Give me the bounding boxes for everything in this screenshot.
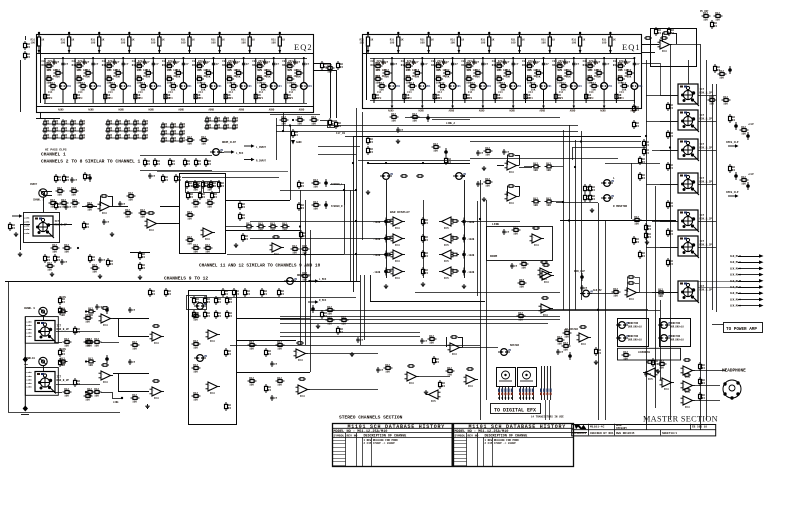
svg-text:AGND: AGND xyxy=(449,110,455,113)
EQ2 top resistor pair 4 xyxy=(121,32,135,54)
EQ1 filter stage 8 xyxy=(583,57,613,103)
master pot block 3 xyxy=(678,139,712,161)
svg-text:CHANNELS 2 TO 8 SIMILAR TO CHA: CHANNELS 2 TO 8 SIMILAR TO CHANNEL 1 xyxy=(41,159,140,165)
EQ1 top resistor pair 6 xyxy=(511,32,525,54)
ch9 pad block xyxy=(35,321,69,343)
svg-text:L: L xyxy=(613,177,615,180)
channel 1 pad block xyxy=(33,216,67,238)
svg-text:1K: 1K xyxy=(162,39,166,42)
ch9 mid junction dots xyxy=(85,310,87,312)
wires right of EQ1 top xyxy=(641,44,659,46)
svg-text:473: 473 xyxy=(138,97,143,100)
svg-text:R_MIX: R_MIX xyxy=(319,299,327,302)
EQ1 top resistor pair 4 xyxy=(450,32,464,54)
EQ1 filter stage 9 xyxy=(613,57,643,103)
output arrow 8 xyxy=(738,298,759,300)
svg-text:C14: C14 xyxy=(589,91,594,94)
EQ2 top bus xyxy=(40,44,42,103)
resistor R202 xyxy=(660,37,668,40)
wire from EQ1 right to blocks xyxy=(641,63,660,65)
bar LED left 3 xyxy=(384,251,388,259)
svg-text:L0dB: L0dB xyxy=(26,386,32,389)
headphone jack pot xyxy=(723,380,741,400)
EQ1 top resistor pair 7 xyxy=(541,32,555,54)
efx left op-amp xyxy=(426,390,441,403)
svg-text:C12 R18: C12 R18 xyxy=(47,62,58,65)
svg-text:223 10K: 223 10K xyxy=(558,69,569,72)
resistor grid A (channel input pads) xyxy=(42,119,86,139)
aux L sum op-amp xyxy=(540,271,555,284)
aux out op-amp xyxy=(625,288,640,301)
svg-text:C14: C14 xyxy=(559,91,564,94)
ch9 second row xyxy=(63,338,72,348)
svg-text:MASTER SECTION: MASTER SECTION xyxy=(643,414,718,423)
svg-text:AGND: AGND xyxy=(570,110,576,113)
loudness box xyxy=(618,348,681,360)
bar comparator right 3 xyxy=(439,250,454,263)
output arrow 7 xyxy=(738,293,759,295)
svg-text:C14: C14 xyxy=(78,91,83,94)
LINE ROOM sub box xyxy=(487,227,553,261)
pot block 7 input wire xyxy=(660,292,678,294)
master bus horizontal xyxy=(560,220,676,222)
svg-text:223 10K: 223 10K xyxy=(437,69,448,72)
svg-text:R21 4K7: R21 4K7 xyxy=(107,75,118,78)
pot block 5 input wire xyxy=(660,221,678,223)
aux input resistors xyxy=(518,279,527,289)
svg-text:473: 473 xyxy=(108,97,113,100)
svg-text:VR1: VR1 xyxy=(517,85,522,88)
EQ2 filter stage 1 xyxy=(42,57,72,103)
svg-text:AGND: AGND xyxy=(148,109,154,112)
arrows to mix bus xyxy=(308,279,319,282)
svg-text:100: 100 xyxy=(602,42,607,45)
EQ1 top resistor pair 3 xyxy=(420,32,434,54)
svg-text:R21 4K7: R21 4K7 xyxy=(528,75,539,78)
EQ2 top resistor pair 2 xyxy=(61,32,75,54)
svg-text:C12 R18: C12 R18 xyxy=(497,62,508,65)
master pot block 6 xyxy=(678,236,712,258)
master pot block 1 xyxy=(678,84,712,106)
svg-text:1K: 1K xyxy=(431,39,435,42)
svg-text:LOUDNESS: LOUDNESS xyxy=(638,351,651,354)
svg-text:223 10K: 223 10K xyxy=(288,69,299,72)
svg-text:1EK_M1: 1EK_M1 xyxy=(730,267,739,270)
bar divider resistor 2 xyxy=(422,234,429,243)
svg-text:1MFG_CLP: 1MFG_CLP xyxy=(726,141,739,144)
svg-text:223 10K: 223 10K xyxy=(497,69,508,72)
svg-text:1K: 1K xyxy=(252,39,256,42)
EFX block 2 pins xyxy=(520,386,522,400)
svg-text:REV NO: REV NO xyxy=(347,435,358,438)
svg-text:473: 473 xyxy=(529,97,534,100)
channel1 left phantom cluster xyxy=(12,214,23,217)
svg-text:R21 4K7: R21 4K7 xyxy=(167,75,178,78)
svg-text:473: 473 xyxy=(259,97,264,100)
svg-text:473: 473 xyxy=(438,97,443,100)
svg-text:CHNNL 9: CHNNL 9 xyxy=(24,307,35,310)
pan law resistor box xyxy=(187,296,207,310)
svg-text:100: 100 xyxy=(271,42,276,45)
svg-text:APPROVALS: APPROVALS xyxy=(573,432,587,435)
left channel cluster op-amps xyxy=(294,349,309,362)
EQ1 top resistor pair 5 xyxy=(481,32,495,54)
svg-text:MODEL NO : M51-12-25A/M10: MODEL NO : M51-12-25A/M10 xyxy=(334,429,388,434)
svg-text:C14: C14 xyxy=(48,91,53,94)
ground under jack xyxy=(18,252,22,257)
pan pots in fader block xyxy=(194,303,208,310)
channel1 post op-amp xyxy=(270,243,285,256)
fader block sub boxes xyxy=(186,182,202,193)
svg-text:VR1: VR1 xyxy=(426,85,431,88)
XLR pin leads xyxy=(43,191,52,193)
EQ2 block outline xyxy=(37,35,314,113)
wires blocks to trunk xyxy=(646,95,678,97)
svg-text:AGND: AGND xyxy=(630,110,636,113)
ch9 pad outer box xyxy=(25,317,58,344)
exit diamond bottom xyxy=(23,406,28,412)
bus verticals at left xyxy=(283,112,285,131)
svg-text:VR1: VR1 xyxy=(67,85,72,88)
svg-text:R21 4K7: R21 4K7 xyxy=(288,75,299,78)
svg-text:2 C45 4700P -> 3300P: 2 C45 4700P -> 3300P xyxy=(485,441,517,445)
svg-text:AGND: AGND xyxy=(299,109,305,112)
svg-text:1K: 1K xyxy=(71,39,75,42)
resistor R201 xyxy=(644,37,652,40)
bar LED right 1 xyxy=(462,218,466,226)
svg-text:473: 473 xyxy=(229,97,234,100)
svg-text:1K: 1K xyxy=(582,39,586,42)
svg-text:14 TRANSISTORS IN USE: 14 TRANSISTORS IN USE xyxy=(531,416,564,419)
svg-text:AGND: AGND xyxy=(178,109,184,112)
post fader op-amp xyxy=(405,372,420,385)
bar comparator left 4 xyxy=(391,267,406,280)
channel 1 pad outer box xyxy=(24,213,60,243)
bar divider resistor 4 xyxy=(422,267,429,276)
svg-text:+CLP: +CLP xyxy=(748,123,754,126)
svg-text:C14: C14 xyxy=(289,91,294,94)
svg-text:VR1: VR1 xyxy=(578,85,583,88)
svg-text:TO DIGITAL EFX: TO DIGITAL EFX xyxy=(494,407,536,413)
channel1 right column resistors xyxy=(298,180,305,189)
svg-text:ROD_CLP: ROD_CLP xyxy=(574,270,585,273)
svg-text:VR1: VR1 xyxy=(547,85,552,88)
right of EQ2 cluster xyxy=(321,61,328,70)
wire EQ2 bottom left down xyxy=(40,112,42,118)
svg-text:R21 4K7: R21 4K7 xyxy=(137,75,148,78)
TO POWER AMP box xyxy=(724,323,763,333)
monitor select transistors xyxy=(601,180,615,187)
bar display rails xyxy=(386,180,388,278)
wires channel1 to bus xyxy=(176,223,179,225)
EQ2 top resistor pair 5 xyxy=(151,32,165,54)
channel 1 op-amp IC2 xyxy=(145,219,160,232)
svg-text:100: 100 xyxy=(61,42,66,45)
bar display box top xyxy=(358,160,470,162)
svg-text:C14: C14 xyxy=(529,91,534,94)
svg-text:C12 R18: C12 R18 xyxy=(618,62,629,65)
channel1 mid resistor cluster xyxy=(55,174,62,183)
monitor op-amp IC32 xyxy=(505,192,520,205)
ch10 resistors row xyxy=(59,358,68,368)
svg-text:473: 473 xyxy=(407,97,412,100)
svg-text:100: 100 xyxy=(360,42,365,45)
bar comparator right 1 xyxy=(439,217,454,230)
svg-text:1K: 1K xyxy=(282,39,286,42)
master pot block 4 xyxy=(678,173,712,195)
svg-text:SYMBOL: SYMBOL xyxy=(334,435,345,438)
svg-text:AGND: AGND xyxy=(296,141,302,144)
monitor box left edge xyxy=(477,201,479,296)
svg-text:473: 473 xyxy=(48,97,53,100)
cluster C phantom supply xyxy=(139,251,146,260)
svg-text:C14: C14 xyxy=(619,91,624,94)
ch10 second row xyxy=(63,388,72,398)
below drum cluster xyxy=(311,305,315,313)
svg-text:AGND: AGND xyxy=(209,109,215,112)
svg-text:R21 4K7: R21 4K7 xyxy=(437,75,448,78)
resistor grid D xyxy=(204,116,239,129)
svg-text:GAIN: GAIN xyxy=(60,348,66,351)
svg-text:VR1: VR1 xyxy=(247,85,252,88)
svg-text:EB 588 10: EB 588 10 xyxy=(692,426,707,429)
svg-text:R21 4K7: R21 4K7 xyxy=(47,75,58,78)
EQ1 filter stage 1 xyxy=(371,57,401,103)
svg-text:R21 4K7: R21 4K7 xyxy=(497,75,508,78)
EQ2 filter stage 7 xyxy=(222,57,252,103)
svg-text:DDR_DK9+10: DDR_DK9+10 xyxy=(670,339,684,342)
svg-text:223 10K: 223 10K xyxy=(588,69,599,72)
svg-text:GND: GND xyxy=(24,363,29,366)
svg-text:1EK_M1: 1EK_M1 xyxy=(730,261,739,264)
series resistor xyxy=(86,202,95,212)
bar comparator right 4 xyxy=(439,267,454,280)
EQ1 top resistor pair 1 xyxy=(360,32,374,54)
pot block 2 input wire xyxy=(660,121,678,123)
svg-text:100: 100 xyxy=(481,42,486,45)
svg-text:INPUT: INPUT xyxy=(30,183,38,186)
svg-text:-10dB: -10dB xyxy=(467,254,475,257)
svg-text:100: 100 xyxy=(151,42,156,45)
aux horizontal bus xyxy=(540,309,648,311)
EQ1 top bus xyxy=(366,44,368,100)
svg-text:-10dB: -10dB xyxy=(467,238,475,241)
svg-text:VR1: VR1 xyxy=(217,85,222,88)
svg-text:VR1: VR1 xyxy=(187,85,192,88)
level resistors right xyxy=(643,139,650,148)
table divider bold xyxy=(451,424,453,467)
svg-text:C12 R18: C12 R18 xyxy=(558,62,569,65)
monitor box bottom xyxy=(415,292,560,294)
svg-text:473: 473 xyxy=(168,97,173,100)
EQ1 top resistor pair 9 xyxy=(602,32,616,54)
EQ2 filter stage 5 xyxy=(162,57,192,103)
svg-text:473: 473 xyxy=(619,97,624,100)
ch1 jack wire xyxy=(43,197,45,213)
ch10 input jack xyxy=(39,357,47,365)
resistor xyxy=(335,120,342,129)
IC32 output resistors xyxy=(532,198,541,208)
svg-text:C14: C14 xyxy=(199,91,204,94)
title block xyxy=(572,425,716,436)
pot block 3 input wire xyxy=(660,150,678,152)
EQ1 block outline xyxy=(363,35,642,109)
inter-block resistors xyxy=(667,102,674,111)
svg-text:C12 R18: C12 R18 xyxy=(228,62,239,65)
horizontal to power amp xyxy=(712,324,723,326)
channel1 long wires xyxy=(157,171,288,173)
channels 9-12 fader block xyxy=(189,291,237,425)
svg-text:R21 4K7: R21 4K7 xyxy=(618,75,629,78)
svg-text:223 10K: 223 10K xyxy=(107,69,118,72)
efx driver op-amp xyxy=(464,375,479,388)
right side cluster 1MFG_CLP lower xyxy=(729,164,736,173)
svg-text:223 10K: 223 10K xyxy=(376,69,387,72)
fader block op-amps xyxy=(206,330,221,343)
ch9 input jack xyxy=(39,307,47,315)
output arrow 1 xyxy=(738,256,759,258)
svg-text:223 10K: 223 10K xyxy=(467,69,478,72)
ch9 second op-amp IC12 xyxy=(150,332,165,345)
svg-text:1R_MASTER: 1R_MASTER xyxy=(565,328,578,331)
aux master pot xyxy=(580,290,594,297)
resistor rows mid xyxy=(131,341,140,351)
svg-text:C12 R18: C12 R18 xyxy=(288,62,299,65)
line feed resistors mid xyxy=(390,113,399,123)
svg-text:1EK_M1: 1EK_M1 xyxy=(730,298,739,301)
junction dots on buses xyxy=(299,225,301,227)
EQ1 filter stage 2 xyxy=(401,57,431,103)
EQ2 top resistor pair 9 xyxy=(271,32,285,54)
svg-text:C12 R18: C12 R18 xyxy=(588,62,599,65)
svg-text:VR1: VR1 xyxy=(127,85,132,88)
svg-text:SYMBOL: SYMBOL xyxy=(455,435,466,438)
svg-text:100: 100 xyxy=(541,42,546,45)
channel 1 input resistors xyxy=(56,187,65,197)
channel 1 XLR input jack xyxy=(39,189,47,197)
svg-text:AGND: AGND xyxy=(509,110,515,113)
svg-text:1K: 1K xyxy=(132,39,136,42)
bar comparator left 1 xyxy=(391,217,406,230)
svg-text:473: 473 xyxy=(289,97,294,100)
svg-text:L0dB: L0dB xyxy=(26,331,32,334)
svg-text:1K: 1K xyxy=(613,39,617,42)
pot block 4 input wire xyxy=(660,184,678,186)
svg-text:C12 R18: C12 R18 xyxy=(137,62,148,65)
small cluster mid xyxy=(326,316,335,326)
svg-text:1K: 1K xyxy=(222,39,226,42)
svg-text:L0dB: L0dB xyxy=(26,371,32,374)
svg-text:100: 100 xyxy=(91,42,96,45)
svg-text:EQ2: EQ2 xyxy=(294,42,313,52)
master left op-amps xyxy=(643,368,658,381)
svg-text:R21 4K7: R21 4K7 xyxy=(406,75,417,78)
resistor grid B xyxy=(105,119,149,139)
master section big box top xyxy=(353,136,641,138)
svg-text:MODEL NO : M51-12-25A/M10: MODEL NO : M51-12-25A/M10 xyxy=(455,429,509,434)
EQ2 top resistor pair 3 xyxy=(91,32,105,54)
svg-text:LINE: LINE xyxy=(492,223,499,226)
svg-text:M1101 SCH DATABASE HISTORY: M1101 SCH DATABASE HISTORY xyxy=(469,424,567,430)
left input arrows xyxy=(244,144,255,147)
svg-text:L0dB: L0dB xyxy=(26,324,32,327)
EQ2 filter stage 6 xyxy=(192,57,222,103)
svg-text:C14: C14 xyxy=(438,91,443,94)
svg-text:473: 473 xyxy=(498,97,503,100)
cluster caps/resistors A xyxy=(44,254,51,263)
svg-text:L0dB: L0dB xyxy=(24,232,30,235)
svg-text:C12 R18: C12 R18 xyxy=(437,62,448,65)
svg-text:L_MIX: L_MIX xyxy=(236,152,244,155)
left rail channels 9-12 xyxy=(24,317,26,409)
svg-text:1K: 1K xyxy=(192,39,196,42)
op-amp IC21 right of EQ1 xyxy=(658,40,673,53)
svg-text:EQ1: EQ1 xyxy=(622,42,641,52)
headphone amps xyxy=(681,366,696,379)
svg-text:VR1: VR1 xyxy=(487,85,492,88)
svg-text:1MFGARY: 1MFGARY xyxy=(616,427,627,430)
cluster B xyxy=(89,254,96,263)
svg-text:100: 100 xyxy=(211,42,216,45)
wire bottom bus xyxy=(236,318,310,320)
svg-text:223 10K: 223 10K xyxy=(137,69,148,72)
svg-text:MASTER: MASTER xyxy=(510,344,520,347)
svg-text:STEREO_R: STEREO_R xyxy=(331,205,343,208)
svg-text:223 10K: 223 10K xyxy=(528,69,539,72)
room op-amp IC34 xyxy=(538,268,553,281)
ch10 pad block xyxy=(35,372,69,394)
ch10 pad outer box xyxy=(25,368,58,396)
aux R sum op-amp xyxy=(539,304,554,317)
EFX connector block 1 xyxy=(497,368,516,387)
svg-text:HEADPHONE: HEADPHONE xyxy=(722,369,746,374)
EQ1 bottom pin arrows xyxy=(388,103,394,113)
EQ2 filter stage 4 xyxy=(132,57,162,103)
svg-text:DDR_DK9+10: DDR_DK9+10 xyxy=(628,339,642,342)
svg-text:1EK_M1: 1EK_M1 xyxy=(730,292,739,295)
svg-text:100: 100 xyxy=(511,42,516,45)
EQ1 top resistor pair 2 xyxy=(390,32,404,54)
EQ1 filter stage 4 xyxy=(461,57,491,103)
input resistors IC31 xyxy=(484,147,493,157)
efx pins to table wires xyxy=(545,400,547,420)
svg-text:223 10K: 223 10K xyxy=(618,69,629,72)
channel1 vertical resistor row upper xyxy=(144,158,151,167)
svg-text:CHANNEL 11 AND 12 SIMILAR TO C: CHANNEL 11 AND 12 SIMILAR TO CHANNELS 9 … xyxy=(199,264,321,269)
ch10 op-amp gnd xyxy=(145,404,149,409)
svg-text:VR1: VR1 xyxy=(638,85,643,88)
svg-text:100: 100 xyxy=(31,42,36,45)
mid trunk triple xyxy=(360,275,362,345)
channel1 series resistor row xyxy=(245,223,254,233)
svg-text:VR1: VR1 xyxy=(396,85,401,88)
bar display top rail xyxy=(368,163,470,165)
bar comparator left 3 xyxy=(391,250,406,263)
bar display input lines xyxy=(250,221,393,223)
EFX connector block 2 xyxy=(518,368,537,387)
bar comparator left 2 xyxy=(391,234,406,247)
EQ2 filter stage 2 xyxy=(72,57,102,103)
channel 1 gain pot wires xyxy=(50,224,72,226)
svg-text:C12 R18: C12 R18 xyxy=(107,62,118,65)
svg-text:HI PASS ELPS: HI PASS ELPS xyxy=(45,149,67,152)
output arrow 5 xyxy=(738,281,759,283)
svg-text:223 10K: 223 10K xyxy=(258,69,269,72)
mix feedback resistors left xyxy=(270,114,320,116)
svg-text:L0dB: L0dB xyxy=(24,220,30,223)
svg-text:R_INPUT: R_INPUT xyxy=(256,160,267,163)
EQ2 top resistor pair 8 xyxy=(241,32,255,54)
